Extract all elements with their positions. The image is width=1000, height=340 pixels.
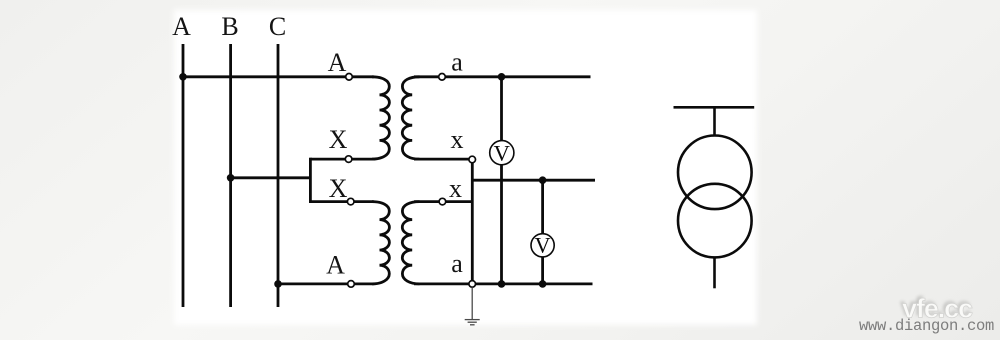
terminal x2 bbox=[439, 198, 446, 205]
voltmeter V1 bbox=[490, 140, 514, 165]
bus C line bbox=[277, 44, 280, 307]
wire voltmeter V1 branch bbox=[500, 77, 503, 284]
svg-text:X: X bbox=[329, 174, 348, 203]
wire vertical X1-X2 tie bbox=[309, 158, 312, 203]
bus B line bbox=[229, 44, 232, 307]
wire T2 primary X terminal to node bbox=[310, 200, 373, 203]
junction V1 bottom bbox=[498, 280, 506, 288]
junction V2 top bbox=[539, 176, 547, 184]
transformer T1 secondary winding bbox=[402, 77, 419, 159]
white drawing panel bbox=[174, 10, 757, 325]
svg-text:B: B bbox=[221, 12, 238, 41]
terminal X1 bbox=[345, 156, 352, 163]
terminal A2 bbox=[348, 281, 355, 288]
bus A line bbox=[182, 44, 185, 307]
svg-text:a: a bbox=[451, 48, 463, 77]
svg-text:a: a bbox=[451, 249, 463, 278]
watermark vfe.cc bbox=[900, 292, 973, 324]
transformer one-line symbol bbox=[674, 107, 755, 288]
svg-text:V: V bbox=[535, 233, 551, 258]
wire T1 secondary a terminal to right bbox=[414, 75, 591, 78]
junction bus B bbox=[227, 174, 235, 182]
junction V2 bottom bbox=[539, 280, 547, 288]
svg-text:x: x bbox=[451, 125, 464, 154]
wire bus C to T2 primary A terminal bbox=[278, 282, 374, 285]
wire T2 secondary x terminal to tie bbox=[414, 200, 472, 203]
wire middle to right bbox=[472, 179, 595, 182]
svg-text:x: x bbox=[449, 174, 462, 203]
svg-text:X: X bbox=[329, 125, 348, 154]
wire T1 secondary x terminal bbox=[414, 158, 472, 161]
wire T1 primary X terminal to node bbox=[310, 158, 373, 161]
junction V1 top bbox=[498, 73, 506, 81]
wire voltmeter V2 branch bbox=[541, 180, 544, 284]
svg-text:A: A bbox=[172, 12, 191, 41]
voltmeter V2 bbox=[531, 233, 554, 258]
transformer T2 secondary winding bbox=[402, 202, 419, 284]
wire bus A to T1 primary A terminal bbox=[183, 75, 374, 78]
svg-text:A: A bbox=[326, 251, 345, 280]
terminal X2 bbox=[347, 198, 354, 205]
svg-text:www.diangon.com: www.diangon.com bbox=[859, 317, 994, 335]
wire T2 secondary a terminal to right (bottom bus) bbox=[414, 282, 593, 285]
terminal A1 bbox=[346, 74, 353, 81]
transformer T1 primary winding bbox=[372, 77, 389, 159]
junction bus A bbox=[179, 73, 187, 81]
svg-text:A: A bbox=[328, 48, 347, 77]
ground bbox=[465, 287, 480, 324]
terminal a2 bbox=[469, 281, 476, 288]
terminal x1 bbox=[469, 156, 476, 163]
svg-text:C: C bbox=[269, 12, 286, 41]
terminal a1 bbox=[439, 74, 446, 81]
wire vertical x1 to a2 tie bbox=[471, 160, 474, 284]
svg-text:V: V bbox=[494, 140, 510, 165]
wire bus B to X tie bbox=[231, 176, 311, 179]
transformer T2 primary winding bbox=[372, 202, 389, 284]
junction bus C bbox=[274, 280, 282, 288]
